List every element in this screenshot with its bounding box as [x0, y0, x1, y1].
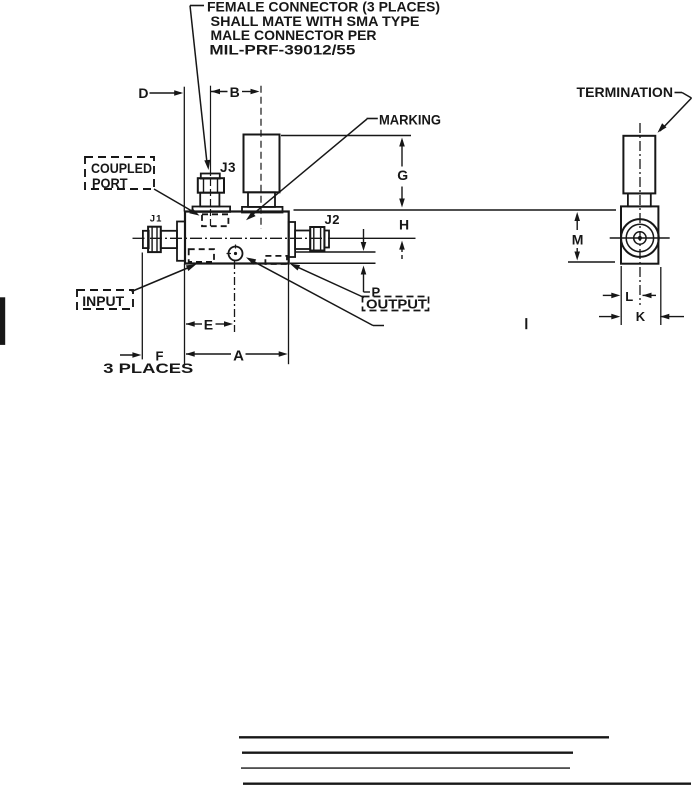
svg-text:J1: J1	[150, 213, 163, 224]
svg-text:A: A	[233, 347, 244, 364]
svg-text:J3: J3	[220, 160, 236, 175]
svg-text:COUPLED: COUPLED	[91, 160, 152, 176]
svg-text:D: D	[138, 85, 148, 101]
svg-text:TERMINATION: TERMINATION	[577, 84, 674, 100]
svg-text:E: E	[204, 316, 213, 332]
svg-text:K: K	[636, 309, 646, 324]
svg-text:G: G	[397, 167, 408, 183]
svg-text:M: M	[572, 232, 584, 248]
svg-text:H: H	[399, 216, 409, 232]
svg-text:L: L	[625, 289, 633, 304]
svg-text:PORT: PORT	[92, 175, 128, 191]
svg-text:J2: J2	[325, 212, 340, 227]
svg-text:MARKING: MARKING	[379, 112, 441, 128]
svg-text:MIL-PRF-39012/55: MIL-PRF-39012/55	[209, 41, 355, 57]
svg-text:B: B	[230, 84, 240, 100]
svg-text:3 PLACES: 3 PLACES	[103, 360, 193, 376]
svg-text:P: P	[372, 284, 381, 299]
svg-text:INPUT: INPUT	[82, 293, 124, 309]
